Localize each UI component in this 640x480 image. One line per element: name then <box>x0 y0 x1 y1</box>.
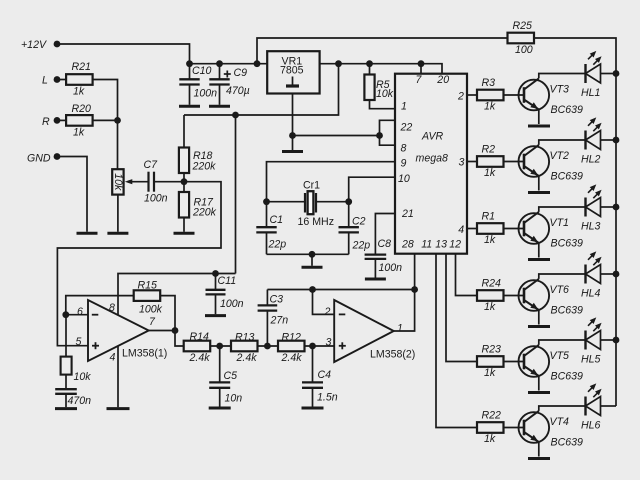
ground for R17 <box>174 232 195 235</box>
svg-text:HL2: HL2 <box>581 153 601 165</box>
node junction V+ / C11 <box>212 270 219 277</box>
ground for VR1 <box>282 150 303 153</box>
ground for C4 <box>302 407 324 410</box>
wire VT4 collector to HL6 <box>539 406 586 411</box>
node junction VR1 gnd / AVR gnd line <box>289 132 296 139</box>
capacitor C7 <box>147 172 149 192</box>
svg-text:LM358(1): LM358(1) <box>122 348 167 360</box>
svg-text:R21: R21 <box>72 61 91 73</box>
wire R12 to op2 + input <box>305 345 335 347</box>
wire VT3 collector to HL1 <box>539 74 586 79</box>
op-amp2 minus sign <box>339 313 346 315</box>
svg-text:R15: R15 <box>138 279 158 291</box>
ground for op-amp1 <box>107 407 130 410</box>
LED HL1 light arrows <box>588 55 593 60</box>
wire pot to ground <box>117 195 119 232</box>
op-amp1 minus sign <box>92 314 99 316</box>
node +12V terminal <box>54 41 61 48</box>
op-amp U2.1 LM358(1) <box>88 300 149 361</box>
svg-text:VT5: VT5 <box>550 350 570 362</box>
wire VR1 output +5V bus <box>320 64 442 74</box>
svg-text:C4: C4 <box>318 369 332 381</box>
resistor R5 <box>369 64 371 75</box>
node junction rail/HL5 <box>613 337 620 344</box>
resistor R18 <box>179 148 189 174</box>
wire VT3 emitter to ground <box>538 110 540 125</box>
node junction +12V/C10 <box>186 60 193 67</box>
capacitor C8 <box>365 253 387 255</box>
wire GND to ground <box>57 157 87 232</box>
node junction pin9/Cr1/C1 <box>263 198 270 205</box>
wire C4 to ground <box>312 388 314 407</box>
node bias junction R18/R17/C7 <box>181 178 188 185</box>
svg-text:R12: R12 <box>282 331 302 343</box>
svg-text:9: 9 <box>401 157 407 169</box>
svg-text:100n: 100n <box>220 298 244 310</box>
svg-text:C9: C9 <box>234 67 248 79</box>
ground for VT3 <box>528 125 550 128</box>
op-amp1 plus sign <box>92 345 99 347</box>
svg-text:1k: 1k <box>484 101 496 113</box>
wire op1 minus to trimmer <box>65 315 67 357</box>
resistor R15 <box>134 290 161 301</box>
svg-text:VT2: VT2 <box>550 150 570 162</box>
voltage regulator VR1 7805 <box>267 51 319 93</box>
svg-text:2: 2 <box>457 91 464 103</box>
svg-text:13: 13 <box>435 239 447 251</box>
ground for C5 <box>209 407 231 410</box>
svg-text:28: 28 <box>401 239 414 251</box>
node junction op1 output <box>172 327 179 334</box>
svg-text:R23: R23 <box>482 343 502 355</box>
transistor VT1 BC639 <box>519 213 550 244</box>
wire op-amp2 inverting input <box>313 290 335 315</box>
svg-text:R1: R1 <box>482 210 496 222</box>
wire op-amp1 output <box>149 330 175 332</box>
svg-text:C2: C2 <box>352 216 366 228</box>
wire +5V drop to op-amp V+ line <box>235 115 237 274</box>
svg-text:C3: C3 <box>270 294 284 306</box>
svg-text:BC639: BC639 <box>551 371 583 383</box>
wire L to R21 <box>57 79 66 81</box>
wire mix node to volume pot <box>117 120 119 169</box>
node junction rail/HL4 <box>613 271 620 278</box>
svg-text:20: 20 <box>436 74 449 86</box>
wire +12V to C10 top junction <box>57 44 190 64</box>
svg-text:100: 100 <box>515 44 533 56</box>
svg-text:4: 4 <box>110 351 116 363</box>
node junction rail/HL1 <box>613 70 620 77</box>
wire op-amp1 inverting input <box>66 314 88 316</box>
ground for GND input <box>77 232 98 235</box>
svg-text:2.4k: 2.4k <box>281 352 303 364</box>
wire R21 to mix node <box>92 80 117 121</box>
svg-text:1k: 1k <box>73 85 85 97</box>
wire R3 to VT3 base <box>503 94 525 96</box>
wire 470n to ground <box>65 394 67 407</box>
wire VT5 emitter to ground <box>538 376 540 391</box>
LED HL4 <box>584 265 586 284</box>
svg-text:2: 2 <box>324 306 331 318</box>
node junction output/feedback/pin28 <box>411 286 418 293</box>
svg-text:5: 5 <box>76 336 82 348</box>
wire VT2 emitter to ground <box>538 176 540 191</box>
wire VR1 ground lead <box>292 94 294 151</box>
svg-text:2.4k: 2.4k <box>189 352 211 364</box>
wire R5 to AVR pin 1 (reset) <box>370 100 396 109</box>
node junction bus/C9 <box>216 60 223 67</box>
svg-text:C10: C10 <box>192 65 212 77</box>
ground for crystal caps <box>302 266 323 269</box>
svg-text:4: 4 <box>458 224 464 236</box>
wire LED cathode rail <box>615 74 617 406</box>
wire R2 to VT2 base <box>503 161 525 163</box>
resistor R13 <box>231 341 258 352</box>
wire AVR pin 11 to R22 <box>436 254 477 428</box>
capacitor C4 <box>312 346 314 382</box>
svg-text:HL6: HL6 <box>581 419 601 431</box>
svg-text:R: R <box>42 116 50 128</box>
IC U1 AVR mega8 <box>395 74 467 254</box>
svg-text:10: 10 <box>398 173 410 185</box>
wire +5V input bus along y=63.7 <box>190 63 268 65</box>
wire AVR pin 21 to C8 <box>375 214 395 255</box>
svg-text:6: 6 <box>77 306 83 318</box>
capacitor C2 <box>339 226 359 228</box>
svg-text:10k: 10k <box>112 173 124 191</box>
node junction R12/C4 <box>309 343 316 350</box>
resistor R14 <box>184 341 211 352</box>
svg-text:HL4: HL4 <box>581 287 601 299</box>
wire AVR pin 9 to crystal <box>267 162 396 228</box>
resistor R22 <box>477 422 504 433</box>
node junction bus/R25 branch <box>254 60 261 67</box>
svg-text:27n: 27n <box>270 315 289 327</box>
svg-text:mega8: mega8 <box>416 153 448 165</box>
svg-text:220k: 220k <box>192 207 217 219</box>
wire +5V branch down to analog rail <box>184 64 339 115</box>
node junction pin10/Cr1/C2 <box>345 198 352 205</box>
svg-text:1.5n: 1.5n <box>317 392 338 404</box>
wire VT4 emitter to ground <box>538 442 540 457</box>
svg-text:1k: 1k <box>484 367 496 379</box>
wire VT5 collector to HL5 <box>539 340 586 345</box>
wire AVR pin 4 to R1 <box>467 228 477 230</box>
svg-text:10k: 10k <box>376 88 394 100</box>
wire R15 to output node <box>160 296 175 331</box>
wire AVR pin 13 to R23 <box>446 254 477 362</box>
wire trimmer to 470n <box>65 375 67 390</box>
svg-text:3: 3 <box>459 156 465 168</box>
resistor R3 <box>477 90 504 101</box>
node junction bus/pin7 <box>418 60 425 67</box>
wire VT6 collector to HL4 <box>539 274 586 279</box>
svg-text:GND: GND <box>27 153 51 165</box>
wire R24 to VT6 base <box>503 295 525 297</box>
svg-text:10n: 10n <box>225 393 243 405</box>
LED HL4 light arrows <box>588 255 593 260</box>
ground for VT1 <box>528 258 550 261</box>
wire R20 to mix node <box>93 119 118 121</box>
ground for C11 <box>205 314 226 317</box>
wire bias node to op-amp1 + input <box>57 182 221 346</box>
svg-text:1k: 1k <box>484 301 496 313</box>
svg-text:100n: 100n <box>144 192 168 204</box>
wire R to R20 <box>57 119 66 121</box>
resistor R23 <box>477 356 504 367</box>
wire C8 to ground <box>374 259 376 278</box>
svg-text:1k: 1k <box>484 433 496 445</box>
transistor VT4 BC639 <box>519 412 550 443</box>
op-amp2 plus sign <box>339 345 346 347</box>
transistor VT5 BC639 <box>519 346 550 377</box>
wire R13 to R12 <box>258 345 279 347</box>
svg-text:HL1: HL1 <box>581 87 600 99</box>
svg-text:470n: 470n <box>68 395 92 407</box>
crystal Cr1 16 MHz <box>267 201 306 203</box>
svg-text:C5: C5 <box>224 370 238 382</box>
transistor VT6 BC639 <box>519 280 550 311</box>
svg-text:R25: R25 <box>513 20 533 32</box>
wire C7 to bias junction <box>154 181 184 183</box>
wire R22 to VT4 base <box>503 427 525 429</box>
svg-text:VT3: VT3 <box>550 84 570 96</box>
LED HL6 <box>584 397 586 416</box>
svg-text:AVR: AVR <box>421 131 444 143</box>
svg-text:21: 21 <box>401 208 414 220</box>
svg-text:HL3: HL3 <box>581 220 601 232</box>
svg-text:11: 11 <box>421 239 432 251</box>
node junction R13/R12/C3 <box>264 343 271 350</box>
wire op-amp2 output to AVR pin 28 <box>394 254 415 331</box>
node junction rail/HL2 <box>613 137 620 144</box>
svg-text:VT4: VT4 <box>550 416 570 428</box>
wire C3 branch <box>266 311 268 346</box>
ground for pot <box>107 232 128 235</box>
ground for 470n <box>55 407 77 410</box>
wire op-amp2 feedback line <box>267 289 414 291</box>
svg-text:220k: 220k <box>192 161 217 173</box>
capacitor C5 <box>219 346 221 382</box>
wire C5 to ground <box>219 388 221 407</box>
svg-text:HL5: HL5 <box>581 353 601 365</box>
LED HL1 <box>584 64 586 83</box>
capacitor C11 <box>215 274 217 290</box>
svg-text:1: 1 <box>401 101 407 113</box>
transistor VT3 BC639 <box>519 80 550 111</box>
LED HL2 <box>584 131 586 150</box>
wire VT2 collector to HL2 <box>539 140 586 145</box>
LED HL5 light arrows <box>588 321 593 326</box>
svg-text:+12V: +12V <box>21 39 47 51</box>
capacitor C9 polarized <box>219 64 221 80</box>
resistor R1 <box>477 223 504 234</box>
svg-text:Cr1: Cr1 <box>303 180 320 192</box>
svg-text:22: 22 <box>400 122 413 134</box>
wire VT1 emitter to ground <box>538 243 540 258</box>
resistor R2 <box>477 156 504 167</box>
wire C11 to ground <box>215 294 217 314</box>
svg-text:10k: 10k <box>74 371 92 383</box>
wire VT6 emitter to ground <box>538 310 540 325</box>
node junction op1 minus <box>62 311 69 318</box>
ground for VT6 <box>528 325 550 328</box>
svg-text:470µ: 470µ <box>226 85 250 97</box>
svg-text:2.4k: 2.4k <box>236 352 258 364</box>
wire R18 to bias junction <box>183 173 185 192</box>
svg-text:100n: 100n <box>194 87 218 99</box>
wire R23 to VT5 base <box>503 361 525 363</box>
svg-text:BC639: BC639 <box>551 305 583 317</box>
wire AVR pin 10 to crystal <box>349 177 395 227</box>
LED HL2 light arrows <box>588 121 593 126</box>
node mix junction R20/R21 <box>114 117 121 124</box>
node junction +5V to op-amp supply <box>232 112 239 119</box>
wire op1 output to R14 <box>175 331 184 347</box>
svg-text:R22: R22 <box>482 409 502 421</box>
ground for VT5 <box>528 391 550 394</box>
wire crystal ground bus <box>267 253 349 255</box>
svg-text:1: 1 <box>397 322 403 334</box>
trimmer resistor 10k <box>61 357 72 375</box>
node R input terminal <box>54 117 61 124</box>
svg-text:22p: 22p <box>268 238 287 250</box>
LED HL5 <box>584 331 586 350</box>
wire op-amp1 V- pin 4 to ground <box>117 346 119 408</box>
LED HL3 <box>584 198 586 217</box>
svg-text:1k: 1k <box>484 234 496 246</box>
svg-text:C7: C7 <box>144 159 159 171</box>
wire C1 to ground bus <box>266 232 268 254</box>
svg-text:3: 3 <box>326 336 332 348</box>
svg-text:C11: C11 <box>218 275 237 287</box>
svg-text:R20: R20 <box>72 103 92 115</box>
resistor R21 <box>66 74 93 85</box>
svg-text:1k: 1k <box>73 127 85 139</box>
wire AVR pin 3 to R2 <box>467 161 477 163</box>
node junction feedback/minus <box>309 286 316 293</box>
pot wiper arrow <box>125 179 133 184</box>
ground for VT2 <box>528 191 550 194</box>
resistor R17 <box>179 192 189 218</box>
wire to crystal ground <box>311 254 313 265</box>
svg-text:100k: 100k <box>139 303 163 315</box>
LED HL3 light arrows <box>588 188 593 193</box>
resistor R25 <box>507 37 509 39</box>
svg-text:100n: 100n <box>379 262 403 274</box>
svg-text:R13: R13 <box>235 331 255 343</box>
wire op-amp1 V+ pin 8 <box>118 274 236 316</box>
resistor R12 <box>278 341 305 352</box>
svg-text:R24: R24 <box>482 277 502 289</box>
svg-text:12: 12 <box>449 239 461 251</box>
ground for C10 <box>179 105 200 108</box>
node GND terminal <box>54 153 61 160</box>
resistor R20 <box>66 115 93 126</box>
svg-text:8: 8 <box>109 302 115 314</box>
node junction crystal gnd <box>309 251 316 258</box>
wire R17 to ground <box>183 218 185 232</box>
ground for C9 <box>209 105 230 108</box>
node junction R14/C5 <box>216 343 223 350</box>
wire R14 to R13 <box>210 345 231 347</box>
node junction bus/R5 <box>366 60 373 67</box>
wire +12V riser to R25 line <box>257 38 508 64</box>
svg-text:LM358(2): LM358(2) <box>370 349 415 361</box>
wire feedback to R15 <box>66 296 134 315</box>
svg-text:BC639: BC639 <box>551 437 583 449</box>
resistor R24 <box>477 290 504 301</box>
svg-text:R2: R2 <box>482 143 496 155</box>
wire VT1 collector to HL3 <box>539 207 586 212</box>
LED HL6 light arrows <box>588 387 593 392</box>
node junction gnd strap <box>376 132 383 139</box>
svg-text:R3: R3 <box>482 77 496 89</box>
svg-text:BC639: BC639 <box>551 104 583 116</box>
svg-text:L: L <box>42 74 48 86</box>
wire AVR pin 2 to R3 <box>467 94 477 96</box>
node junction +5V branch <box>335 60 342 67</box>
potentiometer 10k volume <box>112 169 123 194</box>
svg-text:BC639: BC639 <box>551 238 583 250</box>
svg-text:1k: 1k <box>484 167 496 179</box>
op-amp U2.2 LM358(2) <box>334 300 394 362</box>
capacitor 470n <box>55 388 77 390</box>
VR1 ground pin symbol <box>292 77 294 85</box>
wire R25 to LED rail <box>534 38 616 74</box>
svg-text:8: 8 <box>401 142 407 154</box>
wire AVR pin 12 to R24 <box>456 254 478 296</box>
capacitor C3 <box>258 304 278 306</box>
wire C3 to feedback line <box>266 290 268 306</box>
wire AVR pin 7 supply lead <box>420 64 422 74</box>
wire C10 to ground <box>189 85 191 105</box>
svg-text:BC639: BC639 <box>551 171 583 183</box>
node L input terminal <box>54 76 61 83</box>
wire R1 to VT1 base <box>503 228 525 230</box>
wire C9 to ground <box>219 85 221 105</box>
svg-text:VT1: VT1 <box>550 217 569 229</box>
ground for VT4 <box>528 457 550 460</box>
wire pot wiper to C7 <box>131 181 149 183</box>
svg-text:16 MHz: 16 MHz <box>298 216 335 228</box>
capacitor C10 <box>189 64 191 80</box>
wire analog +5V to R18 <box>183 115 185 148</box>
ground for C8 <box>365 278 386 281</box>
svg-text:7805: 7805 <box>280 65 304 77</box>
wire C2 to ground bus <box>348 232 350 254</box>
svg-text:C1: C1 <box>270 214 284 226</box>
capacitor C1 <box>256 226 276 228</box>
node junction rail/HL3 <box>613 204 620 211</box>
transistor VT2 BC639 <box>519 146 550 177</box>
svg-text:VT6: VT6 <box>550 284 570 296</box>
svg-text:22p: 22p <box>352 239 371 251</box>
wire pins 22/8 strap <box>380 120 396 145</box>
svg-text:C8: C8 <box>378 238 392 250</box>
wire AVR gnd line to pins 22 and 8 <box>293 135 380 137</box>
svg-text:R14: R14 <box>190 331 210 343</box>
